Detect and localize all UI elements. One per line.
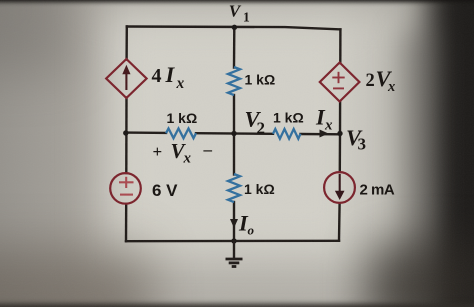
wire: bottom rail [126, 240, 339, 243]
resistor 1kOhm top middle (vertical) [228, 67, 240, 95]
wire: middle horizontal center segment [196, 132, 273, 135]
ground symbol [226, 259, 243, 267]
node dot left middle junction [123, 130, 128, 135]
wire: middle horizontal left segment [126, 131, 166, 134]
wire: left rail below 6V source [125, 204, 128, 241]
wire: left rail between middle and 6V source [125, 133, 127, 173]
minus sign inside 2Vx [333, 87, 344, 89]
wire: middle rail top [233, 27, 236, 67]
arrow inside 4Ix source [122, 65, 130, 90]
wire: middle rail below bottom resistor [233, 202, 235, 241]
resistor 1kOhm middle-left (horizontal) [166, 129, 196, 139]
current Io arrowhead on wire [230, 219, 238, 228]
minus sign inside 6V [120, 194, 133, 196]
node dot V1 [232, 25, 237, 30]
wire: right rail between diamond and middle [339, 101, 342, 134]
ground stub wire [233, 241, 235, 258]
arrow inside 2mA source [335, 174, 345, 200]
wire: top rail [127, 27, 341, 30]
resistor 1kOhm middle-right (horizontal) [273, 129, 301, 139]
wire: right rail below 2mA source [338, 203, 341, 241]
plus sign inside 2Vx [332, 72, 344, 89]
dependent voltage source 2Vx (diamond) [320, 63, 360, 102]
resistor 1kOhm bottom middle (vertical) [228, 174, 240, 202]
wire: right rail between middle and 2mA source [339, 134, 342, 172]
voltage source 6V (circle) [110, 173, 141, 204]
node dot bottom junction [231, 238, 236, 243]
current source 2mA (circle) [324, 172, 355, 203]
dependent current source 4Ix (diamond) [106, 59, 146, 98]
wire: left rail top [125, 27, 128, 60]
current Ix arrowhead on wire [320, 130, 329, 138]
wire: middle rail below top resistor [233, 95, 235, 134]
wire: middle rail between middle wire and bottom resistor [233, 134, 235, 175]
node dot V3 [337, 131, 342, 136]
wire: right rail top [339, 29, 342, 63]
plus sign inside 6V [119, 177, 134, 195]
wire: left rail between diamond and middle [125, 98, 127, 134]
wire: middle horizontal right segment [301, 133, 340, 136]
node dot V2 [231, 131, 236, 136]
